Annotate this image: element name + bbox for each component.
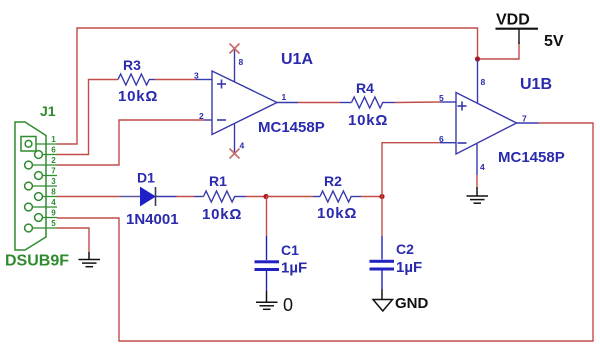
svg-text:5: 5 (439, 93, 444, 103)
wire R3 to U1A pin3 (155, 79, 196, 81)
wire pin5 to ground (57, 228, 89, 252)
svg-text:3: 3 (194, 71, 199, 81)
svg-text:8: 8 (239, 57, 244, 67)
capacitor C2 1uF (370, 236, 423, 289)
wire D1 to R1 (177, 196, 195, 198)
svg-text:10kΩ: 10kΩ (317, 205, 357, 222)
ground under U1B (467, 187, 489, 203)
op-amp U1A (212, 51, 325, 136)
no-connect X pin 8 (230, 44, 240, 54)
ground near connector (79, 252, 101, 267)
svg-text:5: 5 (51, 219, 56, 228)
op-amp U1B (456, 76, 565, 166)
svg-text:4: 4 (51, 198, 56, 207)
no-connect X pin 4 (230, 149, 240, 159)
svg-text:R1: R1 (209, 173, 227, 189)
svg-text:6: 6 (51, 146, 56, 155)
node VDD junction (475, 56, 480, 61)
svg-text:C1: C1 (281, 242, 299, 258)
svg-text:3: 3 (51, 177, 56, 186)
node junction R1/C1 (263, 194, 268, 199)
wire R1 to node1 (246, 196, 267, 198)
svg-text:R4: R4 (356, 80, 374, 96)
svg-text:D1: D1 (137, 170, 155, 186)
connector J1 DSUB9F (15, 122, 46, 250)
pin 4 stub U1B (476, 144, 478, 175)
pin 3 stub U1A (196, 79, 212, 81)
wire U1A out to R4 (298, 102, 340, 104)
svg-text:DSUB9F: DSUB9F (5, 253, 69, 270)
wire pin2 to U1A pin2 (57, 120, 204, 165)
svg-text:2: 2 (199, 111, 204, 121)
svg-text:U1B: U1B (520, 76, 552, 93)
svg-text:C2: C2 (396, 241, 414, 257)
pin 5 stub U1B (440, 101, 456, 103)
node junction R2/C2 (379, 194, 384, 199)
resistor R3 (118, 57, 158, 105)
wire U1B pin4 to ground (476, 175, 478, 187)
diode D1 1N4001 (120, 170, 179, 229)
ground GND under C2 (373, 289, 393, 311)
svg-text:R2: R2 (324, 173, 342, 189)
svg-text:10kΩ: 10kΩ (118, 88, 158, 105)
wire R2 to node2 (361, 196, 382, 198)
pin 6 stub U1B (440, 142, 456, 144)
pin 7 stub U1B (517, 122, 539, 124)
wire node1 to R2 (266, 196, 313, 198)
svg-text:2: 2 (51, 156, 56, 165)
svg-text:1: 1 (51, 135, 56, 144)
resistor R1 (194, 173, 246, 223)
svg-text:R3: R3 (123, 57, 141, 73)
wire U1B out to bottom rail to pin9 (57, 123, 593, 341)
connector pin lines (32, 144, 57, 228)
capacitor C1 1uF (255, 236, 308, 291)
resistor R4 (340, 80, 395, 129)
svg-text:5V: 5V (544, 33, 564, 50)
wire node2 up to U1B pin6 (382, 143, 440, 197)
pin 1 stub U1A (277, 102, 298, 104)
pin 8 stub U1B (477, 59, 479, 104)
connector pin numbers (51, 135, 56, 228)
pin 8 stub U1A (234, 49, 236, 82)
wire pin8 to D1 (57, 196, 120, 198)
svg-text:GND: GND (395, 295, 429, 312)
pin 4 stub U1A (234, 124, 236, 154)
svg-text:U1A: U1A (281, 51, 313, 68)
svg-text:4: 4 (480, 162, 485, 172)
svg-text:10kΩ: 10kΩ (202, 206, 242, 223)
wire R4 to U1B pin5 (395, 101, 440, 104)
ground 0 under C1 (256, 291, 278, 309)
svg-text:8: 8 (51, 188, 56, 197)
pin 2 stub U1A (204, 119, 212, 121)
svg-text:MC1458P: MC1458P (258, 119, 325, 136)
svg-text:1: 1 (282, 92, 287, 102)
svg-text:6: 6 (439, 134, 444, 144)
svg-text:9: 9 (51, 209, 56, 218)
svg-text:4: 4 (240, 141, 245, 151)
wire node1 down to C1 (266, 197, 268, 237)
wire pin6 to R3 (57, 80, 118, 155)
svg-text:8: 8 (481, 77, 486, 87)
svg-text:J1: J1 (40, 103, 56, 119)
svg-text:10kΩ: 10kΩ (348, 112, 388, 129)
svg-text:0: 0 (283, 295, 293, 315)
svg-text:1µF: 1µF (396, 259, 422, 276)
power VDD (496, 29, 539, 44)
svg-text:1µF: 1µF (281, 260, 307, 277)
wire VDD stub (478, 42, 520, 59)
svg-text:7: 7 (51, 167, 56, 176)
svg-text:7: 7 (522, 114, 527, 124)
svg-text:MC1458P: MC1458P (498, 149, 565, 166)
resistor R2 (313, 173, 361, 222)
svg-text:1N4001: 1N4001 (126, 211, 179, 228)
wire pin1 to top rail to VDD junction (57, 28, 478, 144)
wire node2 down to C2 (381, 197, 383, 237)
svg-text:VDD: VDD (496, 12, 530, 29)
